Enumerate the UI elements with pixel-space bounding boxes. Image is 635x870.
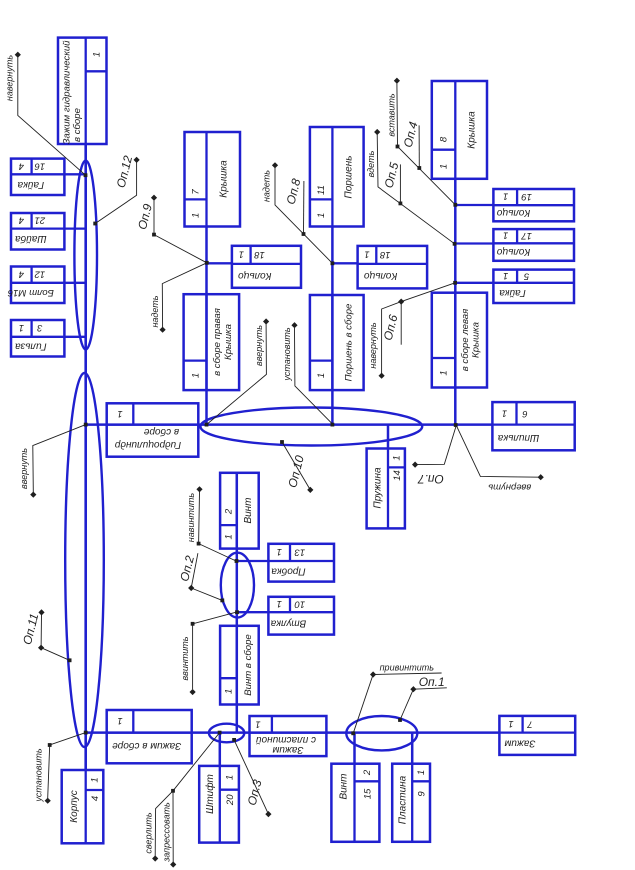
component box: Kolco pos.18 qty 1 (right)	[358, 246, 428, 289]
label: vvernut (left) with leader to spine 1	[19, 425, 86, 498]
wire: connector Gilza to spine 1	[64, 336, 85, 338]
svg-text:привинтить: привинтить	[380, 663, 435, 673]
svg-text:Поршень: Поршень	[343, 156, 354, 199]
svg-text:1: 1	[364, 248, 369, 259]
wire: connector Vtulka to Vint spine	[237, 611, 269, 613]
svg-text:3: 3	[36, 322, 42, 333]
label: vvintit with leader to Op.2 ellipse	[180, 612, 237, 695]
component box: Vint pos.15 qty 2	[331, 764, 379, 842]
label: ustanovit with leader to spine 1	[33, 733, 85, 804]
wire: main horizontal line 1 (Gidrocilindr row)	[86, 423, 493, 426]
svg-text:1: 1	[117, 715, 122, 726]
label: vstavit with leader to spine 4	[387, 78, 456, 205]
svg-text:Зажим в сборе: Зажим в сборе	[112, 740, 182, 752]
svg-text:2: 2	[362, 769, 373, 776]
svg-text:4: 4	[19, 268, 24, 279]
wire: connector Kolco-17 to spine 4	[455, 242, 493, 244]
svg-text:20: 20	[225, 794, 236, 806]
svg-text:4: 4	[19, 160, 24, 171]
label: vdet with leader to spine 4	[366, 129, 455, 244]
svg-text:Крышка: Крышка	[470, 322, 481, 358]
operation ellipse Op.2	[221, 553, 254, 618]
label: ustanovit (middle) with leader to spine 3 junction	[282, 322, 333, 424]
svg-text:ввернуть: ввернуть	[19, 448, 29, 489]
svg-text:навинтить: навинтить	[186, 493, 196, 543]
label: Op.3 with leader from ellipse	[232, 738, 271, 817]
node: junction spine 4 / Gaika-5	[453, 281, 457, 285]
svg-text:ввернуть: ввернуть	[254, 325, 264, 366]
operation ellipse Op.11	[65, 373, 104, 747]
wire: connector Gaika-16 to spine 1	[64, 173, 85, 175]
svg-text:Гайка: Гайка	[499, 287, 526, 298]
svg-text:Кольцо: Кольцо	[363, 270, 397, 281]
svg-text:Оп.7: Оп.7	[417, 472, 444, 486]
svg-text:Пластина: Пластина	[397, 775, 408, 824]
wire: connector Shaiba to spine 1	[64, 227, 85, 229]
node: junction spine 2 / main line 1	[205, 423, 209, 427]
svg-text:Кольцо: Кольцо	[496, 246, 530, 257]
svg-text:ввинтить: ввинтить	[180, 636, 190, 680]
node: junction spine 4 / Kolco-17	[453, 242, 457, 246]
node: junction spine 4 / Kolco-19	[453, 203, 457, 207]
wire: connector Kolco-18 left to spine 2	[207, 262, 232, 264]
label: Op.8 with underline to leader	[284, 177, 306, 236]
component box: Bolt M16 pos.12 qty 4	[7, 267, 64, 304]
wire: Vint-15 drop line	[353, 733, 356, 764]
svg-text:1: 1	[224, 534, 235, 539]
svg-text:1: 1	[239, 248, 244, 259]
svg-text:Болт М16: Болт М16	[7, 287, 54, 298]
component box: Kolco pos.19 qty 1	[493, 189, 574, 221]
component box: Zazhim s plastinoj (qty 1)	[250, 716, 327, 756]
component box: Kryshka pos.7 qty 1	[185, 132, 241, 227]
svg-text:1: 1	[316, 373, 327, 378]
svg-text:Винт в сборе: Винт в сборе	[243, 634, 254, 696]
svg-text:11: 11	[316, 185, 327, 195]
svg-text:21: 21	[35, 215, 47, 226]
wire: Pruzhina drop line	[387, 425, 390, 449]
svg-text:7: 7	[527, 718, 533, 729]
svg-text:Пробка: Пробка	[271, 565, 306, 577]
node: junction Vint spine / Probka	[235, 559, 239, 563]
svg-text:8: 8	[439, 136, 450, 142]
wire: Shtift drop line	[219, 733, 222, 766]
node: junction spine 1 / main line 1	[84, 423, 88, 427]
svg-text:Крышка: Крышка	[466, 111, 477, 149]
svg-text:запрессовать: запрессовать	[161, 802, 171, 863]
component box: Kryshka v sbore levaja (qty 1)	[432, 293, 487, 388]
node: junction main line 2 in Op.3 ellipse	[218, 731, 222, 735]
svg-text:ввернуть: ввернуть	[488, 481, 531, 492]
wire: spine 4 vertical (Kryshka-8 column)	[454, 179, 457, 426]
component box: Probka pos.13 qty 1	[268, 544, 334, 582]
component box: Pruzhina pos.14 qty 1	[367, 449, 405, 529]
svg-text:вдеть: вдеть	[366, 150, 376, 177]
component box: Zazhim pos.7 qty 1 (bottom right)	[499, 716, 575, 755]
component box: Porshen pos.11 qty 1	[310, 127, 364, 227]
svg-text:10: 10	[294, 598, 305, 609]
component box: Shpilka pos.6 qty 1	[492, 402, 574, 450]
svg-text:Кольцо: Кольцо	[496, 207, 530, 218]
component box: Shaiba pos.21 qty 4	[11, 213, 64, 250]
svg-text:4: 4	[19, 215, 24, 226]
svg-text:надеть: надеть	[150, 295, 160, 327]
wire: connector Gaika-5 to spine 4	[455, 282, 493, 284]
label: Op.11 with leader to big ellipse	[20, 609, 71, 662]
label: Op.4 with underline	[401, 120, 422, 170]
svg-text:19: 19	[521, 191, 532, 202]
svg-text:Гайка: Гайка	[17, 179, 44, 190]
label: Op.6 with leader to spine 4	[381, 283, 455, 345]
label: zapressovat with leader to Op.3 ellipse	[161, 733, 219, 868]
wire: connector Kolco-19 to spine 4	[455, 204, 493, 206]
node: junction spine 3 / main line 1	[331, 423, 335, 427]
svg-text:1: 1	[225, 775, 236, 780]
svg-text:16: 16	[34, 160, 45, 171]
label: sverlit with leader	[144, 791, 173, 862]
label: nadet (middle) with leader to spine 3 junction	[262, 162, 333, 263]
svg-text:вставить: вставить	[387, 93, 397, 137]
svg-text:установить: установить	[282, 327, 292, 382]
component box: Zazhim v sbore (qty 1)	[107, 710, 192, 763]
label: Op.9 with leader to spine 2 junction	[135, 195, 207, 263]
svg-text:1: 1	[277, 546, 282, 557]
svg-text:1: 1	[191, 373, 202, 378]
label: privintit with underline and leader to Op.1	[351, 663, 441, 736]
label: Op.12 with leader	[93, 154, 139, 226]
svg-text:5: 5	[523, 270, 529, 281]
component box: Vint pos.2 qty 1	[220, 473, 259, 549]
svg-text:Винт: Винт	[243, 497, 254, 523]
svg-text:в сборе: в сборе	[72, 108, 83, 142]
svg-text:Втулка: Втулка	[270, 617, 306, 628]
svg-text:Оп.1: Оп.1	[419, 675, 445, 689]
operation ellipse Op.10	[200, 408, 422, 446]
label: navernut (top left) with leader to Op.12 ellipse	[5, 52, 88, 178]
svg-text:18: 18	[254, 249, 265, 260]
svg-text:1: 1	[277, 598, 282, 609]
component box: Korpus pos.4 qty 1	[62, 770, 104, 843]
svg-text:навернуть: навернуть	[5, 55, 15, 101]
svg-text:14: 14	[392, 470, 403, 481]
svg-text:1: 1	[503, 191, 508, 202]
svg-text:Пружина: Пружина	[372, 467, 383, 509]
svg-text:1: 1	[439, 370, 450, 375]
svg-text:Кольцо: Кольцо	[238, 270, 272, 281]
node: junction spine 1 / main line 2	[84, 731, 88, 735]
svg-text:Гидроцилиндр: Гидроцилиндр	[114, 439, 181, 450]
svg-text:Крышка: Крышка	[218, 160, 229, 198]
operation ellipse Op.1	[346, 716, 417, 750]
svg-text:Зажим гидравлический: Зажим гидравлический	[61, 40, 72, 145]
wire: connector Probka to Vint spine	[237, 560, 269, 562]
operation ellipse Op.3	[209, 724, 244, 743]
svg-text:4: 4	[90, 796, 101, 801]
svg-text:навернуть: навернуть	[368, 322, 378, 368]
label: Op.2 with leader to ellipse edge	[177, 553, 224, 602]
svg-text:1: 1	[416, 770, 427, 775]
svg-text:15: 15	[363, 788, 374, 799]
svg-text:1: 1	[224, 689, 235, 694]
svg-text:в сборе левая: в сборе левая	[460, 309, 471, 372]
component box: Porshen v sbore (qty 1)	[310, 295, 364, 390]
component box: Kryshka pos.8 qty 1	[432, 81, 487, 179]
component box: Vtulka pos.10 qty 1	[268, 597, 334, 635]
label: Op.7 with leader to main line 1	[412, 425, 456, 486]
svg-text:7: 7	[191, 189, 202, 195]
component box: Vint v sbore (qty 1)	[220, 626, 259, 705]
svg-text:в сборе: в сборе	[143, 426, 179, 438]
svg-text:с пластиной: с пластиной	[256, 734, 316, 745]
component box: Plastina pos.9 qty 1	[392, 764, 430, 842]
svg-text:Крышка: Крышка	[223, 324, 234, 360]
node: junction spine 3 / Kolco-18	[331, 261, 335, 265]
component box: Gaika pos.16 qty 4	[11, 159, 64, 195]
component box: Zazhim gidravlicheskij v sbore (qty 1)	[58, 38, 107, 145]
svg-text:1: 1	[439, 164, 450, 169]
wire: connector Bolt M16 to spine 1	[64, 282, 85, 284]
label: vvernut (middle) with leader to spine 2 junction	[207, 318, 270, 424]
label: vvernut (second) with leader to main line 1	[456, 425, 544, 492]
svg-text:надеть: надеть	[262, 170, 272, 202]
svg-text:1: 1	[508, 718, 513, 729]
label: Op.10 with leader from ellipse	[280, 440, 313, 493]
component box: Gaika pos.5 qty 1	[493, 270, 574, 303]
svg-text:в сборе правая: в сборе правая	[212, 308, 223, 376]
svg-text:18: 18	[379, 249, 390, 260]
node: junction spine 2 / Kolco-18	[205, 261, 209, 265]
svg-text:17: 17	[521, 230, 532, 241]
label: nadet (left) with leader to spine 2 junction	[150, 263, 207, 333]
svg-text:Корпус: Корпус	[69, 790, 80, 823]
wire: Vint assembly spine	[236, 473, 239, 733]
svg-text:6: 6	[522, 408, 528, 419]
label: Op.1 with underline and leader to ellipse edge	[398, 675, 447, 722]
svg-text:1: 1	[19, 322, 24, 333]
svg-text:1: 1	[255, 719, 260, 730]
svg-text:Шайба: Шайба	[15, 233, 47, 245]
label: navernut (second) hanging from Op.6 diamond	[368, 302, 401, 379]
svg-text:1: 1	[117, 408, 122, 419]
component box: Gilza pos.3 qty 1	[11, 320, 64, 357]
svg-text:Гильза: Гильза	[15, 341, 47, 352]
wire: Plastina drop line	[411, 733, 414, 764]
wire: main horizontal line 2 (Zazhim row)	[86, 731, 500, 734]
component box: Kolco pos.18 qty 1 (left)	[232, 246, 301, 288]
label: Op.5 with underline	[382, 161, 403, 206]
svg-text:установить: установить	[33, 748, 43, 803]
component box: Shtift pos.20 qty 1	[199, 766, 239, 843]
wire: spine 3 vertical (Porshen column)	[331, 227, 334, 425]
node: junction Vint spine / Vtulka	[235, 610, 239, 614]
component box: Gidrocilindr v sbore (qty 1)	[107, 403, 199, 456]
operation ellipse Op.12	[74, 161, 97, 350]
svg-text:Поршень в сборе: Поршень в сборе	[343, 304, 354, 382]
svg-text:1: 1	[502, 407, 507, 418]
label: navintit with leader to Op.2 ellipse	[186, 486, 236, 561]
svg-text:Штифт: Штифт	[204, 774, 216, 814]
wire: spine 2 vertical (Kryshka column)	[205, 227, 208, 425]
svg-text:1: 1	[392, 455, 403, 460]
svg-text:1: 1	[90, 777, 101, 782]
svg-text:9: 9	[417, 791, 428, 797]
svg-text:2: 2	[224, 508, 235, 515]
svg-text:1: 1	[91, 52, 102, 57]
component box: Kolco pos.17 qty 1	[493, 229, 574, 261]
svg-text:сверлить: сверлить	[144, 812, 154, 853]
wire: connector Kolco-18 right to spine 3	[332, 262, 357, 264]
wire: spine 1 vertical (main assembly line)	[84, 144, 87, 770]
node: junction spine 4 / main line 1	[454, 423, 458, 427]
svg-text:1: 1	[191, 213, 202, 218]
svg-text:Шпилька: Шпилька	[497, 432, 539, 443]
svg-text:1: 1	[316, 213, 327, 218]
svg-text:13: 13	[294, 546, 305, 557]
svg-text:12: 12	[34, 268, 45, 279]
svg-text:Винт: Винт	[338, 773, 349, 799]
svg-text:1: 1	[503, 270, 508, 281]
svg-text:Зажим: Зажим	[504, 737, 535, 748]
svg-text:1: 1	[503, 230, 508, 241]
component box: Kryshka v sbore pravaja (qty 1)	[184, 294, 240, 390]
